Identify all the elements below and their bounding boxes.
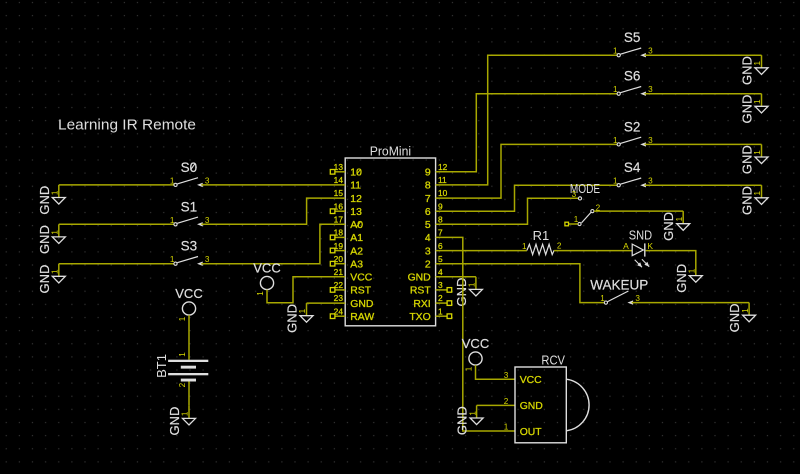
ground for LED bbox=[674, 263, 703, 293]
svg-text:1: 1 bbox=[256, 291, 265, 296]
svg-text:BT1: BT1 bbox=[154, 354, 169, 378]
svg-text:Learning IR Remote: Learning IR Remote bbox=[58, 118, 196, 134]
svg-text:9: 9 bbox=[425, 168, 431, 179]
svg-text:7: 7 bbox=[438, 228, 443, 238]
switch S1 bbox=[170, 199, 210, 226]
wire S1 to U1 pin 15 bbox=[201, 198, 345, 224]
svg-text:RXI: RXI bbox=[413, 299, 430, 310]
svg-text:1: 1 bbox=[170, 176, 175, 185]
wire U1 pin 5 to WAKEUP bbox=[436, 264, 605, 303]
svg-text:3: 3 bbox=[205, 216, 210, 225]
svg-text:A0: A0 bbox=[350, 220, 363, 231]
svg-text:S0: S0 bbox=[181, 160, 198, 175]
wire U1 pin 7 to RCV OUT bbox=[436, 237, 515, 431]
wire VCC to battery bbox=[188, 315, 190, 360]
title text bbox=[58, 118, 196, 134]
wire WAKEUP to GND bbox=[632, 302, 749, 304]
svg-text:1: 1 bbox=[753, 99, 762, 104]
svg-text:1: 1 bbox=[51, 269, 60, 274]
wire VCC to RCV bbox=[476, 365, 516, 379]
slashed zero marks bbox=[191, 163, 361, 226]
svg-text:GND: GND bbox=[455, 406, 470, 435]
svg-text:2: 2 bbox=[557, 241, 562, 250]
svg-text:3: 3 bbox=[425, 246, 431, 257]
svg-text:S6: S6 bbox=[624, 69, 641, 84]
wire S0 to GND bbox=[59, 184, 174, 186]
svg-text:GND: GND bbox=[740, 186, 755, 215]
svg-text:4: 4 bbox=[438, 267, 443, 277]
svg-text:RCV: RCV bbox=[541, 352, 565, 367]
ground for MODE bbox=[661, 211, 690, 241]
svg-text:1: 1 bbox=[465, 366, 474, 371]
svg-text:1: 1 bbox=[753, 150, 762, 155]
ground for S4 bbox=[740, 185, 769, 215]
wire U1 pin 12 to S6 bbox=[436, 94, 617, 172]
svg-text:1: 1 bbox=[298, 308, 307, 313]
svg-text:S1: S1 bbox=[181, 199, 198, 214]
svg-text:1: 1 bbox=[468, 411, 477, 416]
wire U1 pin 6 to R1 bbox=[436, 250, 527, 252]
svg-text:12: 12 bbox=[438, 162, 448, 172]
wire U1 pin 10 to S2 bbox=[436, 144, 617, 198]
svg-text:GND: GND bbox=[37, 225, 52, 254]
svg-text:RAW: RAW bbox=[350, 312, 374, 323]
svg-text:1: 1 bbox=[675, 216, 684, 221]
svg-text:1: 1 bbox=[522, 242, 527, 251]
ground at U1 pin 23 bbox=[285, 303, 314, 333]
svg-text:1: 1 bbox=[504, 423, 509, 432]
svg-text:1: 1 bbox=[574, 215, 579, 224]
svg-text:ProMini: ProMini bbox=[370, 144, 411, 159]
ground for S1 bbox=[37, 224, 66, 254]
U1 left pin numbers bbox=[334, 162, 344, 316]
svg-text:1: 1 bbox=[51, 230, 60, 235]
svg-text:A1: A1 bbox=[350, 233, 363, 244]
U1 right pin names bbox=[408, 168, 432, 323]
svg-text:6: 6 bbox=[425, 207, 431, 218]
svg-text:TXO: TXO bbox=[409, 312, 430, 323]
svg-text:GND: GND bbox=[674, 264, 689, 293]
svg-text:2: 2 bbox=[178, 382, 187, 387]
svg-text:GND: GND bbox=[454, 278, 469, 307]
svg-text:A: A bbox=[623, 241, 629, 251]
U1 left pin names bbox=[350, 168, 374, 323]
U1 right unconnected pin stubs bbox=[436, 288, 452, 319]
svg-text:GND: GND bbox=[167, 407, 182, 436]
svg-text:A3: A3 bbox=[350, 260, 363, 271]
ground at battery bbox=[167, 406, 196, 436]
svg-text:2: 2 bbox=[438, 293, 443, 303]
wire MODE pin 2 to GND bbox=[594, 210, 683, 212]
resistor R1 bbox=[522, 228, 562, 255]
svg-text:3: 3 bbox=[205, 176, 210, 185]
svg-text:VCC: VCC bbox=[520, 375, 542, 386]
wire S1 to GND bbox=[59, 223, 174, 225]
svg-text:1: 1 bbox=[613, 136, 618, 145]
svg-text:15: 15 bbox=[334, 188, 344, 198]
power VCC at RCV bbox=[462, 336, 489, 371]
switch S2 bbox=[613, 119, 653, 146]
power VCC at U1 pin 21 bbox=[253, 261, 280, 296]
wire U1 pin 9 to S4 bbox=[436, 185, 617, 211]
svg-text:3: 3 bbox=[648, 177, 653, 186]
svg-text:S5: S5 bbox=[624, 30, 641, 45]
wire battery to GND bbox=[188, 382, 190, 406]
svg-text:OUT: OUT bbox=[520, 427, 543, 438]
wire R1 to LED SND anode bbox=[554, 250, 632, 252]
svg-text:VCC: VCC bbox=[253, 261, 280, 276]
svg-text:8: 8 bbox=[438, 215, 443, 225]
svg-text:GND: GND bbox=[37, 265, 52, 294]
svg-text:3: 3 bbox=[648, 136, 653, 145]
wire S4 to GND bbox=[645, 184, 762, 186]
svg-text:1: 1 bbox=[178, 352, 187, 357]
svg-text:1: 1 bbox=[438, 306, 443, 316]
wire S3 to U1 pin 17 bbox=[201, 224, 345, 263]
ground for S3 bbox=[37, 264, 66, 294]
ground at RCV bbox=[455, 405, 484, 435]
svg-text:3: 3 bbox=[504, 371, 509, 380]
battery BT1 bbox=[154, 352, 208, 388]
svg-text:11: 11 bbox=[350, 181, 361, 192]
wire S3 to GND bbox=[59, 263, 174, 265]
svg-text:S2: S2 bbox=[624, 119, 641, 134]
svg-text:VCC: VCC bbox=[462, 336, 489, 351]
svg-text:K: K bbox=[647, 241, 653, 251]
svg-text:VCC: VCC bbox=[350, 273, 372, 284]
svg-text:GND: GND bbox=[285, 304, 300, 333]
U1 right pin numbers bbox=[438, 162, 448, 316]
svg-text:RST: RST bbox=[410, 286, 431, 297]
svg-text:WAKEUP: WAKEUP bbox=[590, 278, 648, 293]
svg-text:GND: GND bbox=[740, 145, 755, 174]
svg-text:GND: GND bbox=[408, 273, 431, 284]
svg-text:VCC: VCC bbox=[175, 286, 202, 301]
svg-text:1: 1 bbox=[753, 60, 762, 65]
wire S5 to GND bbox=[645, 54, 762, 56]
svg-text:2: 2 bbox=[504, 397, 509, 406]
svg-text:7: 7 bbox=[425, 194, 431, 205]
svg-text:21: 21 bbox=[334, 267, 344, 277]
switch MODE bbox=[570, 181, 601, 225]
svg-text:R1: R1 bbox=[533, 228, 550, 243]
MODE pin 1 unconnected stub bbox=[565, 222, 578, 226]
svg-text:1: 1 bbox=[468, 282, 477, 287]
svg-text:12: 12 bbox=[350, 194, 362, 205]
svg-text:3: 3 bbox=[648, 85, 653, 94]
svg-text:1: 1 bbox=[170, 255, 175, 264]
svg-text:4: 4 bbox=[425, 233, 431, 244]
wire U1 pin 4 to GND bbox=[436, 276, 476, 278]
wire U1 pin 8 to MODE pin 3 bbox=[436, 198, 579, 224]
ground for S2 bbox=[740, 144, 769, 174]
svg-text:2: 2 bbox=[425, 260, 431, 271]
svg-text:3: 3 bbox=[438, 280, 443, 290]
LED SND bbox=[623, 227, 653, 267]
ground at U1 pin 4 bbox=[454, 277, 483, 307]
svg-text:9: 9 bbox=[438, 201, 443, 211]
ground for S5 bbox=[740, 55, 769, 85]
svg-text:1: 1 bbox=[178, 316, 187, 321]
ground for S6 bbox=[740, 94, 769, 124]
wire S2 to GND bbox=[645, 143, 762, 145]
svg-text:GND: GND bbox=[37, 186, 52, 215]
wire VCC to U1 pin 21 bbox=[267, 277, 345, 303]
svg-text:3: 3 bbox=[635, 294, 640, 303]
svg-text:1: 1 bbox=[600, 294, 605, 303]
svg-text:17: 17 bbox=[334, 215, 344, 225]
svg-text:1: 1 bbox=[613, 47, 618, 56]
ground for S0 bbox=[37, 185, 66, 215]
svg-text:GND: GND bbox=[350, 299, 373, 310]
switch WAKEUP bbox=[590, 278, 648, 305]
switch S4 bbox=[613, 160, 653, 187]
wire S0 to U1 pin 14 bbox=[201, 184, 345, 186]
svg-text:5: 5 bbox=[438, 254, 443, 264]
svg-text:8: 8 bbox=[425, 181, 431, 192]
svg-text:S3: S3 bbox=[181, 239, 198, 254]
svg-text:13: 13 bbox=[350, 207, 362, 218]
svg-text:3: 3 bbox=[572, 190, 577, 199]
svg-text:3: 3 bbox=[205, 255, 210, 264]
U1 left unconnected pin stubs bbox=[330, 170, 345, 319]
svg-text:1: 1 bbox=[753, 190, 762, 195]
wire S6 to GND bbox=[645, 93, 762, 95]
svg-text:23: 23 bbox=[334, 293, 344, 303]
svg-text:S4: S4 bbox=[624, 160, 641, 175]
svg-text:1: 1 bbox=[51, 190, 60, 195]
svg-text:11: 11 bbox=[438, 175, 447, 185]
svg-text:A2: A2 bbox=[350, 246, 363, 257]
svg-text:GND: GND bbox=[520, 401, 543, 412]
svg-text:1: 1 bbox=[181, 411, 190, 416]
svg-text:RST: RST bbox=[350, 286, 371, 297]
power VCC at battery bbox=[175, 286, 202, 321]
svg-text:1: 1 bbox=[613, 177, 618, 186]
wire U1 pin 23 to GND bbox=[307, 302, 346, 304]
wire RCV GND pin to GND bbox=[477, 404, 515, 406]
svg-text:GND: GND bbox=[661, 212, 676, 241]
svg-text:6: 6 bbox=[438, 241, 443, 251]
IR receiver RCV bbox=[504, 352, 589, 442]
svg-text:3: 3 bbox=[648, 47, 653, 56]
wire LED cathode to GND bbox=[646, 251, 696, 263]
svg-text:1: 1 bbox=[688, 268, 697, 273]
svg-text:GND: GND bbox=[740, 95, 755, 124]
switch S3 bbox=[170, 239, 210, 266]
switch S6 bbox=[613, 69, 653, 96]
svg-text:10: 10 bbox=[438, 188, 448, 198]
switch S0 bbox=[170, 160, 210, 187]
svg-text:GND: GND bbox=[727, 303, 742, 332]
svg-text:1: 1 bbox=[170, 216, 175, 225]
svg-text:1: 1 bbox=[613, 85, 618, 94]
svg-text:1: 1 bbox=[741, 308, 750, 313]
wire U1 pin 11 to S5 bbox=[436, 55, 617, 185]
svg-text:14: 14 bbox=[334, 175, 344, 185]
svg-text:5: 5 bbox=[425, 220, 431, 231]
svg-text:GND: GND bbox=[740, 56, 755, 85]
IC U1 ProMini body bbox=[345, 144, 435, 326]
ground for WAKEUP bbox=[727, 303, 756, 333]
switch S5 bbox=[613, 30, 653, 57]
